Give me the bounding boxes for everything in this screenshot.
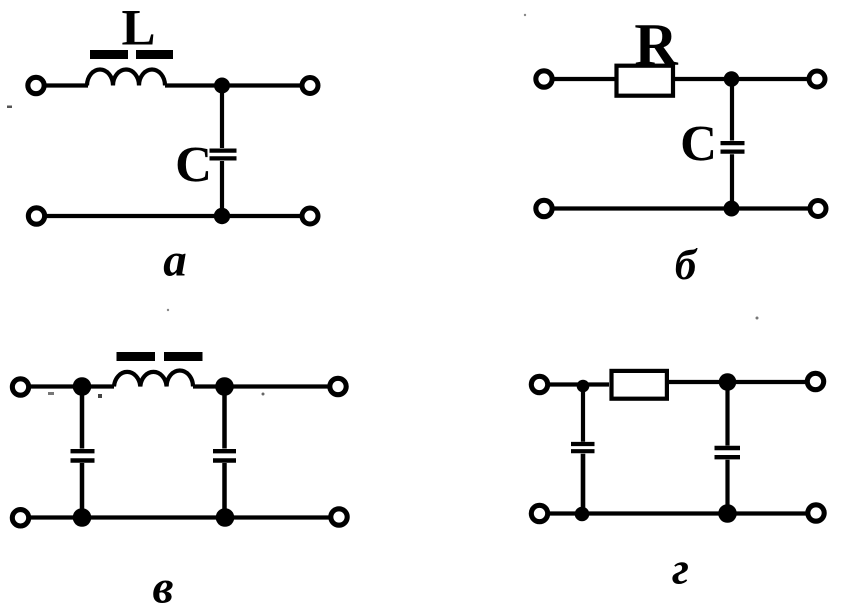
svg-text:г: г [672, 543, 689, 594]
svg-text:R: R [634, 12, 678, 78]
svg-text:L: L [121, 1, 155, 57]
svg-text:C: C [175, 138, 212, 194]
svg-text:а: а [163, 235, 187, 287]
svg-text:б: б [675, 242, 698, 289]
svg-text:C: C [680, 117, 717, 173]
svg-text:в: в [153, 562, 174, 613]
